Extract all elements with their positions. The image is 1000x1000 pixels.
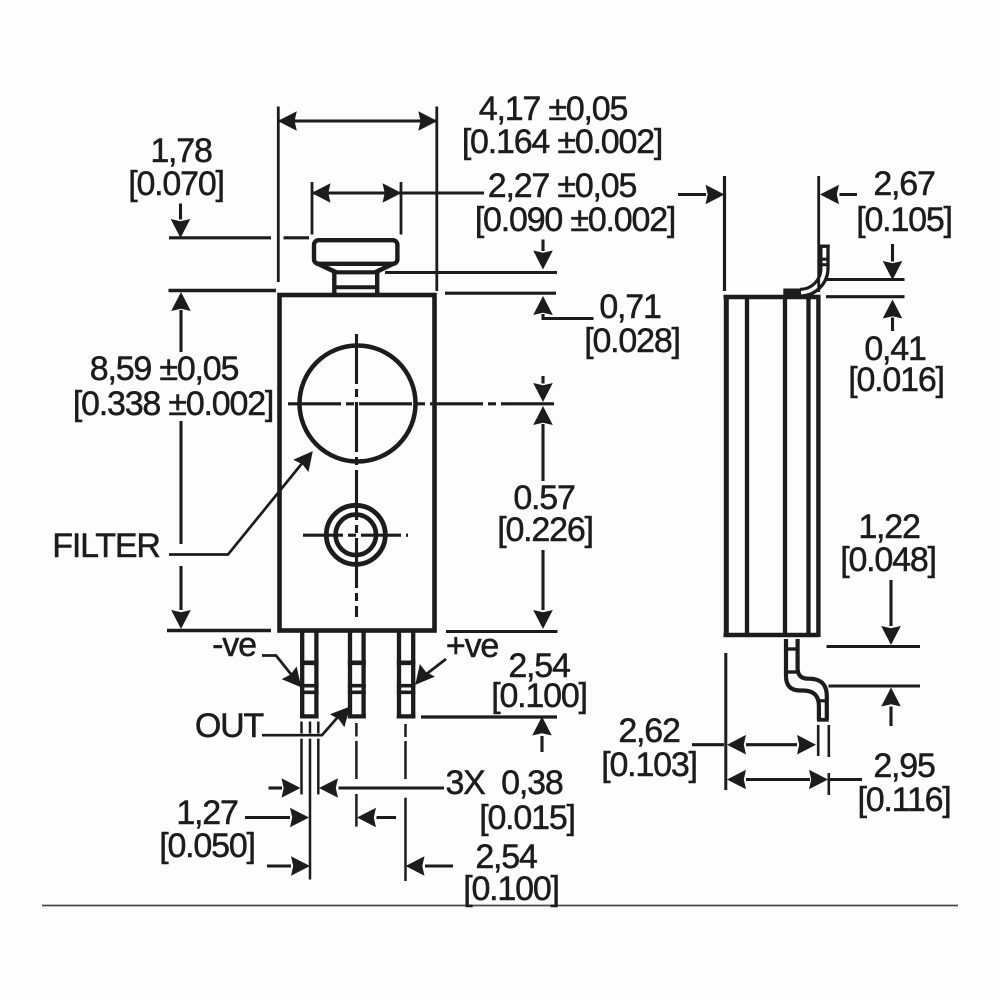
label +ve [446,632,498,661]
dimension text 2,54 bottom [475,843,536,872]
dim 3X 0,38 dimension line row [269,786,283,789]
dimension text 1,78 [150,137,211,166]
dim 0.57 upper down arrow [541,376,544,384]
lens cap (dome top) [314,240,397,264]
dim 0,41 reference lines [826,278,905,281]
lead 3 extension line [404,724,407,881]
lead 2 (OUT) outline [348,630,366,719]
dim 2,95 dimension line [746,778,810,781]
dim 8,59 reference lines [169,289,277,292]
dimension text 2,54 right [508,652,569,681]
label FILTER [52,532,159,561]
label FILTER leader [169,456,308,555]
dim 4,17 extension lines [277,107,280,283]
label +ve leader [420,659,446,679]
dim 2,27 extension lines [311,182,314,235]
body bottom reference line right [446,630,558,633]
label -ve leader [262,656,298,684]
dim 2,62 dimension line [692,743,724,746]
lens neck right slant [375,264,394,273]
side view inner line 3 [806,299,810,633]
lens aperture inner circle [336,515,376,555]
dimension text 8,59 [89,355,237,384]
dim 1,22 reference lines [827,645,921,648]
lens neck shoulder line [333,270,379,274]
dimension text 2,62 [618,717,679,746]
label -ve [212,631,256,660]
dim 2,67 dimension line arrows [678,193,706,196]
side view top lead S-bend [784,245,830,297]
dim 0,71 up arrow with leader [533,296,553,315]
dimension text 3X 0,38 [445,769,562,798]
horizontal centerline big circle [288,402,558,405]
dimension text 0.57 [513,484,574,513]
dim 0.57 up arrow below centerline [533,406,553,425]
filter window (big circle) [300,346,416,462]
dim 8,59 dimension line with arrows [179,310,182,352]
dim 2,27 dimension line [312,191,484,194]
dimension text 2,27 [487,172,635,201]
lead 2 extension line [355,723,358,827]
dim 0,71 reference line lower [445,292,556,295]
lens aperture outer circle [326,505,385,564]
lead 1 extension lines [302,722,319,880]
dimension text 2,67 [873,170,934,199]
dim 0.57 lower shaft and down arrow [541,550,544,610]
lens neck left side [332,273,336,294]
dim 0,71 reference line upper [385,271,557,274]
dim 1,78 arrow and reference line [179,204,182,220]
lead 3 (+ve) outline [397,630,416,719]
dim 2,54 lead-end reference line [421,715,557,718]
horizontal crosshair small circle [303,534,408,537]
dim 2,54 up arrow [532,717,552,736]
lens neck inner line [333,285,379,289]
side view bottom lead S-bend [785,639,829,720]
label OUT [195,712,263,741]
dimension text 0,71 [599,293,660,322]
lens neck left slant [318,264,337,273]
dim 2,62 extension lines [724,653,727,790]
dim 2,67 extension lines [723,176,726,291]
dim 0,41 arrows [891,244,894,262]
vertical centerline [355,334,358,617]
side view body outline [724,295,821,300]
dimension text 0,41 [864,335,925,364]
side view inner line 1 [745,299,749,633]
dim 1,22 arrows [889,580,892,626]
dim 2,54 bottom dimension line row [267,864,291,867]
front view package body [280,295,435,631]
lens neck right side [375,273,379,294]
bottom separator rule [42,905,958,907]
dimension text 2,95 [873,752,934,781]
label OUT leader [262,710,344,735]
side view inner line 2 [783,299,787,633]
dimension text 4,17 [478,95,626,124]
dim 4,17 dimension line [278,119,437,122]
dim 1,27 dimension line row [245,816,290,819]
dimension text 1,22 [858,513,919,542]
dimension text 1,27 [176,799,237,828]
lead 1 (-ve) outline [300,630,319,719]
dim 0,71 down arrow [541,240,544,252]
